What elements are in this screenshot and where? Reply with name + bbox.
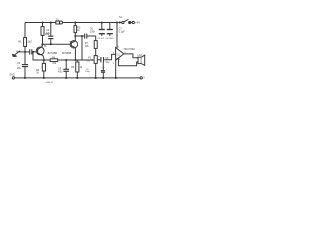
node rail bottom P1	[95, 77, 97, 79]
svg-text:+9V: +9V	[135, 21, 140, 25]
svg-text:3: 3	[113, 63, 115, 65]
wire R1 bottom to mic node	[24, 46, 26, 52]
svg-text:10µ: 10µ	[17, 67, 22, 70]
wire amp ground pin	[115, 60, 117, 78]
wire T2 collector down	[74, 48, 76, 60]
svg-text:1k: 1k	[80, 66, 83, 69]
node C5	[65, 59, 67, 61]
microphone MIC1	[12, 51, 21, 57]
potentiometer P1	[86, 56, 97, 78]
terminal ground right	[140, 77, 145, 80]
node mic/base junction	[24, 51, 26, 53]
wire rail to R5	[74, 23, 76, 26]
fuse/jack on rail	[56, 20, 63, 24]
svg-text:0.1µF: 0.1µF	[119, 31, 126, 34]
svg-text:C3: C3	[17, 62, 21, 65]
resistor R1	[18, 38, 32, 47]
svg-text:15k: 15k	[52, 62, 57, 65]
label article number	[46, 82, 54, 84]
label TDA7052	[123, 47, 135, 51]
capacitor C2	[46, 23, 53, 46]
wire R5 to T2 emitter	[74, 33, 76, 41]
svg-text:C6 GND: C6 GND	[106, 38, 114, 40]
svg-text:TDA7052: TDA7052	[123, 47, 135, 51]
node rail R2	[41, 21, 43, 23]
wire node to mic	[19, 51, 25, 53]
op-amp IC1	[113, 47, 127, 65]
svg-text:6: 6	[118, 47, 120, 49]
svg-text:R1: R1	[18, 40, 22, 44]
node rail bottom R6	[76, 77, 78, 79]
resistor R4	[50, 56, 57, 65]
wire feedback vertical	[81, 36, 83, 60]
wire left vertical from rail corner to R1	[24, 23, 26, 38]
svg-text:MIC: MIC	[16, 52, 21, 54]
capacitor C3	[17, 62, 28, 78]
wire pot to C8	[97, 59, 100, 61]
capacitor C6 decoupling	[90, 23, 105, 40]
wire bias bus	[33, 52, 92, 60]
node feedback vertical	[81, 35, 83, 37]
svg-text:0434-11: 0434-11	[46, 82, 54, 84]
node T2 collector bus	[74, 59, 76, 61]
resistor R3	[36, 60, 45, 78]
capacitor C7 decoupling	[106, 23, 126, 40]
wire node down to C3	[24, 52, 26, 64]
label BC546B	[48, 52, 58, 55]
node rail bottom C5	[65, 77, 67, 79]
resistor R7	[94, 36, 97, 56]
svg-text:P1: P1	[88, 56, 92, 59]
svg-text:100n: 100n	[90, 30, 96, 33]
svg-text:2k2: 2k2	[28, 40, 33, 44]
svg-text:1k: 1k	[77, 29, 80, 32]
speaker LS1	[137, 54, 145, 66]
svg-text:S1: S1	[119, 16, 123, 19]
node rail bottom amp	[115, 77, 117, 79]
label BC556B	[62, 52, 72, 55]
capacitor C9 branch	[85, 62, 105, 78]
wire rail to amp V+	[116, 23, 118, 49]
node rail T2 emitter	[74, 21, 76, 23]
transistor T2	[69, 41, 77, 48]
capacitor C8	[98, 54, 115, 64]
svg-text:R6: R6	[71, 66, 75, 69]
svg-text:GND: GND	[9, 74, 14, 76]
wire amp out2 to speaker bottom	[118, 58, 137, 66]
svg-text:T1: T1	[44, 45, 48, 48]
svg-text:10µ: 10µ	[105, 62, 110, 64]
label R7	[85, 42, 90, 48]
resistor R5	[74, 26, 81, 33]
svg-text:100µ: 100µ	[85, 71, 90, 73]
node rail bottom C9	[102, 77, 104, 79]
node rail bottom R3	[43, 77, 45, 79]
svg-text:0: 0	[143, 78, 145, 80]
node C4 branch	[74, 35, 76, 37]
svg-text:1k: 1k	[36, 72, 39, 75]
svg-text:22k: 22k	[85, 45, 90, 48]
capacitor C5	[58, 60, 69, 78]
capacitor C4 (series, vertical plates)	[85, 34, 96, 39]
terminal ground left	[9, 74, 14, 79]
transistor T1	[36, 44, 47, 58]
resistor R6	[71, 60, 83, 78]
svg-text:47µ: 47µ	[58, 70, 63, 73]
svg-text:C9: C9	[102, 68, 106, 70]
node emitter R3	[43, 59, 45, 61]
capacitor C1 (series, vertical plates)	[25, 49, 36, 54]
node rail C6	[101, 21, 103, 23]
wire T1 emitter stub	[43, 58, 45, 60]
wire base line T1 collector node to T2 base	[43, 43, 71, 45]
svg-text:BC556B: BC556B	[62, 52, 72, 55]
svg-text:BC546B: BC546B	[48, 52, 58, 55]
svg-text:C5 4n7: C5 4n7	[97, 38, 105, 40]
wire top rail	[25, 22, 122, 24]
node rail C2	[50, 21, 52, 23]
node bus base loop	[32, 51, 34, 53]
svg-text:LS1: LS1	[138, 54, 143, 57]
wire bottom rail	[14, 77, 140, 79]
svg-text:10k: 10k	[86, 61, 90, 63]
wire C4 branch horizontal	[75, 35, 84, 37]
node R2/collector	[41, 43, 43, 45]
switch S1	[119, 16, 131, 23]
svg-text:+: +	[98, 55, 100, 58]
node rail bottom C3	[24, 77, 26, 79]
terminal +9V	[131, 21, 140, 25]
resistor R2	[41, 23, 50, 45]
svg-text:8: 8	[119, 59, 121, 61]
wire T1 collector to R2 node	[41, 44, 43, 46]
node rail amp supply	[116, 21, 118, 23]
wire amp output to speaker top	[124, 54, 138, 58]
svg-text:47µ: 47µ	[46, 32, 51, 35]
